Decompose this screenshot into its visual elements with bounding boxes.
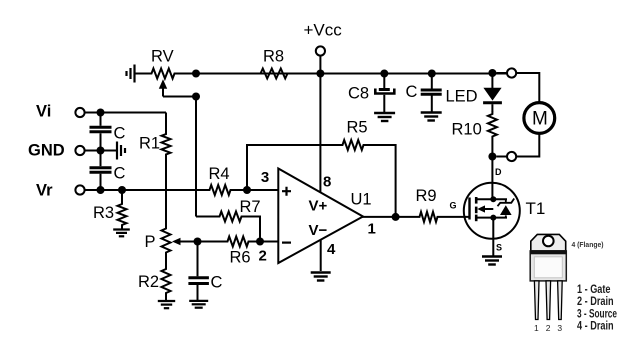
capacitor C (supply) [406,83,442,101]
ground (under C) [421,113,442,121]
node (+Vcc tap) [316,70,324,78]
wire (Vi to R1 lead) [165,113,167,132]
capacitor C (Vi-GND) [90,125,126,143]
TO-220 pin 3 [558,281,563,320]
svg-text:M: M [532,109,548,130]
svg-text:3: 3 [557,323,562,333]
TO-220 pin 1 [534,281,539,320]
node (Vr junction) [97,186,105,194]
terminal Vi [36,103,85,121]
TO-220 package body [530,251,566,281]
wire (RV right to node) [177,73,196,75]
svg-text:V+: V+ [309,198,328,215]
svg-text:LED: LED [446,88,478,106]
wire (cap lead) [100,113,102,126]
resistor R8 [258,48,290,79]
motor M [524,103,555,134]
ground (under C at P node) [189,301,208,308]
TO-220 pin 2 [546,281,551,320]
svg-text:1: 1 [534,323,539,333]
wire (C to ground) [431,94,433,111]
svg-text:C8: C8 [348,85,369,103]
resistor R3 [93,190,127,228]
svg-text:R4: R4 [209,165,230,183]
ground (under R3) [113,230,130,237]
svg-text:Vi: Vi [36,103,51,121]
ground (op-amp pin 4) [311,273,331,281]
wire (P node to R6) [198,241,226,243]
svg-text:R8: R8 [263,48,284,66]
svg-text:R10: R10 [452,121,482,139]
wire (source to ground) [492,218,494,256]
ground (GND terminal) [117,142,125,160]
ground (under R2) [158,301,175,308]
ground (left of RV) [127,65,135,83]
node (output node) [392,213,400,221]
svg-text:C: C [406,83,418,101]
svg-text:1: 1 [368,221,376,238]
svg-text:C: C [114,165,126,183]
svg-text:R5: R5 [347,119,368,137]
node (Vi junction) [97,109,105,117]
svg-text:R3: R3 [93,204,114,222]
terminal (motor -) [507,152,516,161]
node (C8 tap) [380,70,388,78]
wire (cap lead) [100,151,102,167]
node (pin3 node) [243,186,251,194]
resistor R1 [139,132,171,158]
transistor T1 [464,183,546,239]
resistor R5 [340,119,368,151]
svg-text:R2: R2 [138,273,159,291]
wire (P wiper to node) [180,241,198,243]
wire (drain) [491,157,493,200]
wire (LED anode lead) [491,73,493,88]
wire (GND stub) [85,150,116,152]
wire (to motor top) [516,73,539,103]
wire (drain node to terminal) [496,156,507,158]
wire (pin 4 to ground) [320,240,322,271]
node (P wiper node) [194,238,202,246]
wire (RV wiper to node) [163,96,196,98]
svg-text:D: D [495,167,502,177]
svg-text:P: P [145,233,156,251]
terminal GND [28,142,85,160]
wire (cap lead) [100,174,102,190]
svg-text:GND: GND [28,142,65,160]
wire (R7 bend) [196,216,217,218]
svg-text:4: 4 [327,241,336,258]
svg-text:T1: T1 [526,199,546,218]
wire [136,73,150,75]
node (pin2 node) [256,238,264,246]
wire (R1 to P) [165,157,167,226]
svg-text:R6: R6 [230,249,251,267]
resistor R4 [207,165,233,195]
svg-text:C: C [211,274,223,292]
svg-text:8: 8 [323,174,331,191]
wire (LED cathode lead) [491,104,493,112]
wire (R6 to op-amp -) [251,241,278,243]
node (GND junction) [97,147,105,155]
wire (C8 lead) [383,74,385,89]
potentiometer RV [149,48,177,97]
wire (R7 to pin2 node) [244,217,260,242]
svg-text:S: S [496,243,502,253]
svg-text:+Vcc: +Vcc [304,21,343,40]
resistor R9 [416,187,441,222]
wire (C to ground) [197,285,199,300]
svg-text:C: C [114,125,126,143]
wire (R3 to ground) [121,228,123,230]
svg-text:V−: V− [309,222,328,239]
ground (MOSFET source) [482,257,502,265]
wire (R2 to ground) [165,296,167,301]
wire (+Vcc stub) [319,56,321,74]
wire (cap lead) [100,133,102,150]
wire (op-amp output) [361,216,417,218]
node (LED tap) [488,69,496,77]
wire (to motor bottom) [516,133,539,156]
node (RV wiper junction) [192,93,200,101]
wire (rail to terminal) [496,72,507,74]
terminal +Vcc [304,21,343,56]
wire (P node to C) [197,242,199,277]
diode LED [446,88,502,106]
wire (R10 to drain node) [491,139,493,157]
potentiometer P [145,226,181,255]
TO-220 package tab [531,234,566,251]
svg-text:3: 3 [261,169,269,186]
wire (R4 to op-amp +) [233,189,278,191]
resistor R10 [452,112,497,140]
resistor R7 [217,198,261,222]
node (R3 tap) [118,186,126,194]
node (RV top junction) [192,70,200,78]
svg-text:R1: R1 [139,135,160,153]
wire (Vr line) [85,189,207,191]
svg-text:U1: U1 [351,191,372,209]
wire (pin 8 supply) [319,74,321,193]
svg-text:RV: RV [151,48,174,66]
terminal (motor +) [507,68,516,77]
wire (Vi to R1) [85,112,166,114]
svg-text:4 (Flange): 4 (Flange) [572,240,604,249]
svg-text:G: G [450,201,457,211]
wire (pin3 node up) [247,145,340,190]
capacitor C (P node) [188,274,222,292]
resistor R6 [225,237,251,267]
resistor R2 [138,267,171,296]
wire (P to R2) [165,255,167,267]
svg-text:2: 2 [546,323,551,333]
wire (R9 to gate) [440,216,470,218]
wire (R5 to output) [366,145,396,217]
svg-text:R7: R7 [240,198,261,216]
op-amp U1 [278,169,371,264]
svg-text:R9: R9 [416,187,437,205]
svg-text:4 - Drain: 4 - Drain [577,319,614,333]
node (drain node) [488,153,496,161]
svg-text:Vr: Vr [36,182,53,200]
svg-text:2: 2 [259,248,267,265]
capacitor C (GND-Vr) [90,165,126,183]
wire (C8 to ground) [383,95,385,112]
wire (C lead) [431,74,433,89]
capacitor C8 [348,85,394,103]
ground (under C8) [374,113,395,121]
wire (wiper node down to R7) [195,97,197,217]
terminal Vr [36,182,85,200]
node (C tap) [428,70,436,78]
wire (+Vcc rail) [196,73,507,75]
